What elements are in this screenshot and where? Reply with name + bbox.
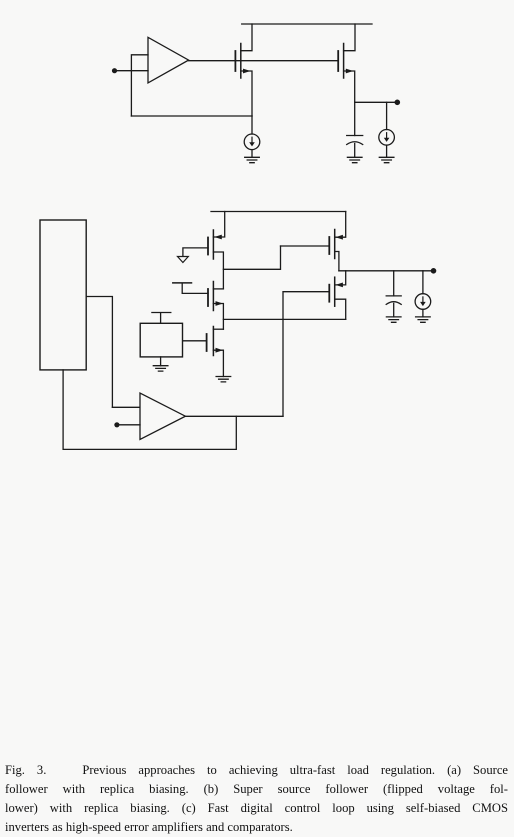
wire M4 source to rail: [213, 212, 224, 238]
transistor M3 channel: [212, 282, 214, 311]
wire M0 source to Cout: [354, 102, 356, 135]
figure caption line 1: [5, 763, 508, 793]
wire M1 gate to VSET: [283, 292, 329, 417]
figure caption line 3: [5, 801, 508, 831]
transistor M0b drain lead: [335, 252, 339, 271]
transistor M3 source arrow: [216, 301, 224, 306]
ground arrow at M4 gate: [178, 257, 189, 263]
wire M4 gate to ground: [183, 248, 208, 256]
wire M4 drain node to M0 gate: [223, 246, 280, 269]
ground below Iload (b): [416, 317, 431, 322]
figure caption line 4: [5, 820, 509, 835]
transistor M2 gate bar: [206, 334, 208, 351]
transistor M2 channel: [212, 327, 214, 356]
node Vout dot (b): [431, 268, 437, 274]
node Vout dot (a): [395, 100, 401, 106]
wire M1 source to Vout line: [335, 271, 346, 285]
current source Ibias wire from M0R source: [251, 116, 253, 134]
transistor M1 channel: [334, 277, 336, 306]
transistor M2 source arrow: [216, 348, 224, 353]
figure caption line 2: [5, 782, 508, 812]
wire Vout line (b): [339, 270, 434, 272]
transistor M2 gate lead from bias box: [183, 340, 207, 342]
wire Ibias to ground: [251, 150, 253, 158]
transistor M0R source arrow: [243, 69, 251, 74]
transistor M0b channel: [334, 230, 336, 259]
bias box: [140, 323, 182, 357]
transistor M4 gate bar: [207, 238, 209, 255]
ground below Iload (a): [379, 157, 394, 162]
transistor M3 drain lead (top): [213, 288, 223, 290]
ground below bias box: [153, 366, 168, 371]
wire op-amp output to M0R and M0 gates: [189, 60, 339, 62]
current source Ibias arrow: [251, 137, 253, 144]
transistor M0b gate bar: [328, 237, 330, 254]
transistor M4 source arrow (PMOS): [214, 235, 222, 240]
wire Vin rail (a): [242, 23, 372, 25]
transistor M3 gate to bias terminal: [182, 284, 208, 294]
Replica box: [40, 220, 86, 370]
wire M0 source to rail (b): [335, 212, 346, 238]
capacitor Cout bottom plate curved (b): [386, 302, 401, 305]
wire Vout node line: [355, 101, 398, 103]
wire VREF to + input: [114, 70, 148, 72]
wire feedback to - input: [131, 55, 148, 116]
op-amp U2 A0 triangle (b): [140, 393, 185, 439]
transistor M1 drain lead: [335, 299, 346, 319]
transistor M3 source lead with arrow: [213, 304, 223, 330]
ground below Cout (b): [386, 317, 401, 322]
transistor M0R gate bar: [234, 51, 236, 71]
wire M0R drain to rail: [241, 24, 252, 51]
current source Iload arrow (b): [422, 297, 424, 304]
wire VFB into op-amp minus input: [112, 406, 140, 408]
transistor M0R source lead: [241, 71, 252, 116]
wire Cout to ground: [354, 144, 356, 158]
wire M0 gate lead: [281, 245, 329, 247]
node VREF dot: [112, 68, 117, 73]
wire VREF to + input (b): [117, 424, 140, 426]
capacitor Cout top plate (b): [386, 295, 401, 297]
current source Iload arrow (a): [386, 133, 388, 140]
transistor M0R channel: [240, 44, 242, 79]
current source Iload circle (b): [415, 294, 431, 310]
current source Iload circle (a): [379, 130, 395, 146]
wire Cout to ground (b): [393, 303, 395, 317]
wire Iload to ground (a): [386, 145, 388, 157]
transistor M0b source arrow (PMOS): [335, 235, 343, 240]
ground below M2: [216, 377, 231, 382]
wire M0 drain to rail: [344, 24, 355, 51]
transistor M0 gate bar: [337, 51, 339, 71]
wire Vin rail (b): [211, 211, 346, 213]
ground below Cout (a): [347, 157, 362, 162]
node VREF dot (b): [114, 422, 119, 427]
transistor M0 source arrow: [346, 69, 354, 74]
transistor M1 source arrow (PMOS): [335, 283, 343, 288]
transistor M4 channel: [212, 230, 214, 259]
wire bias box to ground: [160, 357, 162, 366]
wire Iload branch (a): [386, 102, 388, 129]
wire feedback from output to Replica bottom: [63, 370, 236, 450]
ground below Ibias: [245, 157, 260, 162]
capacitor Cout top plate (a): [347, 135, 363, 137]
wire Replica output VFB: [86, 297, 112, 408]
capacitor Cout bottom plate curved (a): [347, 142, 363, 145]
terminal T-bar at M3 gate: [173, 282, 192, 284]
wire VFB rail: [131, 115, 252, 117]
wire M3/M2 node to M1 drain (long): [223, 318, 345, 320]
transistor M1 gate bar: [328, 285, 330, 302]
transistor M0 source lead: [344, 71, 355, 102]
capacitor Cout branch (b): [393, 271, 395, 296]
current source Ibias circle: [244, 134, 260, 150]
terminal T-bar above bias box: [152, 313, 171, 324]
op-amp U1 A0 triangle: [148, 37, 189, 83]
transistor M0 channel: [343, 44, 345, 79]
transistor M3 gate bar: [207, 289, 209, 306]
wire Iload to ground (b): [422, 309, 424, 317]
transistor M2 source lead with arrow: [213, 350, 223, 376]
wire op-amp output VSET: [185, 415, 283, 417]
transistor M2 drain lead: [213, 328, 223, 330]
wire Iload branch (b): [422, 271, 424, 294]
transistor M4 drain lead: [213, 252, 223, 289]
